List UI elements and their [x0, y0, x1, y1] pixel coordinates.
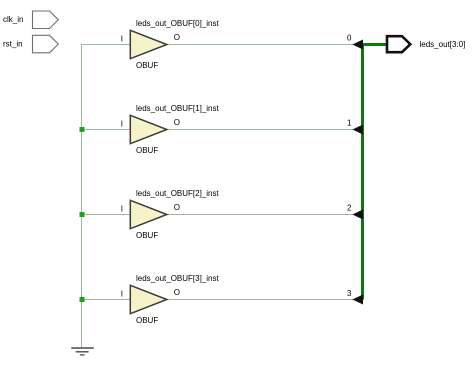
wire left vertical rail [81, 44, 83, 348]
input port clk_in [33, 11, 59, 29]
svg-text:2: 2 [347, 203, 352, 212]
svg-text:O: O [174, 288, 180, 297]
svg-text:leds_out_OBUF[2]_inst: leds_out_OBUF[2]_inst [136, 189, 219, 198]
bus ripper arrow 1 [352, 125, 363, 135]
junction row2 [80, 212, 85, 217]
svg-text:3: 3 [347, 289, 352, 298]
wire row2 output segment [167, 214, 353, 216]
svg-text:I: I [121, 120, 123, 129]
wire row3 output segment [167, 299, 353, 301]
svg-text:O: O [174, 33, 180, 42]
svg-text:0: 0 [347, 33, 352, 42]
junction row3 [80, 297, 85, 302]
svg-text:O: O [174, 203, 180, 212]
ground [71, 348, 94, 355]
svg-text:OBUF: OBUF [136, 316, 158, 325]
svg-text:leds_out_OBUF[1]_inst: leds_out_OBUF[1]_inst [136, 104, 219, 113]
svg-text:OBUF: OBUF [136, 61, 158, 70]
buffer U3 leds_out_OBUF[3]_inst [130, 285, 167, 313]
svg-text:I: I [121, 35, 123, 44]
wire row2 input segment [81, 214, 130, 216]
svg-text:OBUF: OBUF [136, 146, 158, 155]
svg-text:OBUF: OBUF [136, 231, 158, 240]
buffer U1 leds_out_OBUF[1]_inst [130, 115, 167, 143]
wire row1 input segment [81, 129, 130, 131]
svg-text:I: I [121, 290, 123, 299]
svg-text:1: 1 [347, 118, 352, 127]
wire row1 output segment [167, 129, 353, 131]
svg-text:leds_out_OBUF[3]_inst: leds_out_OBUF[3]_inst [136, 274, 219, 283]
wire row0 output segment [167, 44, 353, 46]
bus segment to output port [361, 43, 387, 46]
bus ripper arrow 0 [352, 40, 363, 50]
buffer U2 leds_out_OBUF[2]_inst [130, 200, 167, 228]
bus leds_out vertical [361, 43, 364, 300]
buffer U0 leds_out_OBUF[0]_inst [130, 30, 167, 58]
input port rst_in [33, 35, 59, 53]
junction row1 [80, 127, 85, 132]
wire row0 input segment [81, 44, 130, 46]
bus ripper arrow 3 [352, 295, 363, 305]
bus ripper arrow 2 [352, 210, 363, 220]
wire row3 input segment [81, 299, 130, 301]
svg-text:I: I [121, 205, 123, 214]
svg-text:clk_in: clk_in [3, 15, 23, 24]
svg-text:leds_out[3:0]: leds_out[3:0] [420, 40, 466, 49]
svg-text:O: O [174, 118, 180, 127]
svg-text:rst_in: rst_in [3, 39, 23, 48]
svg-text:leds_out_OBUF[0]_inst: leds_out_OBUF[0]_inst [136, 19, 219, 28]
output port leds_out[3:0] [387, 36, 410, 52]
